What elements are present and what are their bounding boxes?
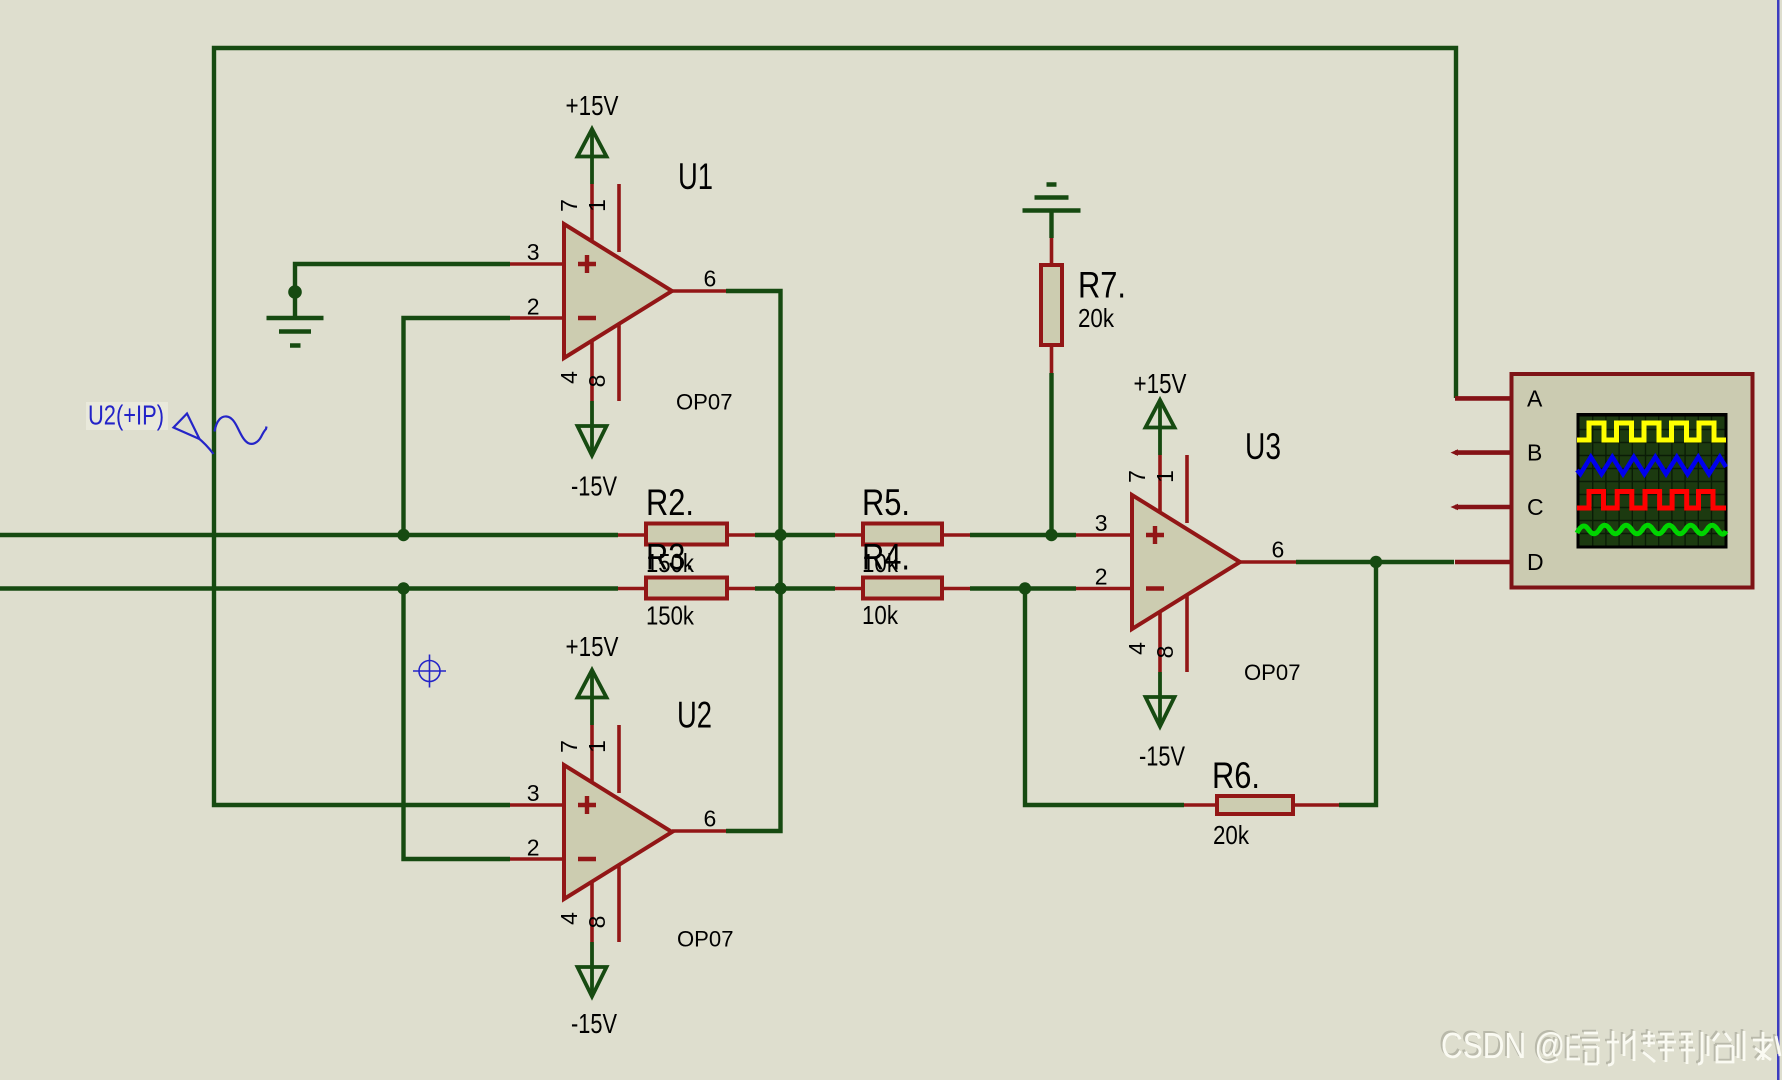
resistor R4 leads [835,587,970,591]
watermark shadow [1439,1023,1563,1064]
ground (top, at R7) [1023,185,1081,211]
resistor R5 leads [835,533,970,537]
svg-text:4: 4 [556,371,582,384]
svg-text:3: 3 [527,780,540,806]
svg-text:2: 2 [527,294,540,320]
oscilloscope pin A [1455,396,1510,401]
svg-text:20k: 20k [1213,820,1250,850]
svg-text:20k: 20k [1078,303,1115,333]
svg-text:U3: U3 [1245,426,1281,467]
svg-text:+15V: +15V [566,90,619,121]
svg-text:CSDN @: CSDN @ [1441,1025,1565,1066]
junction node B [397,582,409,594]
trace D green sine [1577,525,1726,534]
svg-text:1: 1 [1152,470,1178,483]
resistor R7 [1041,265,1062,345]
svg-text:U1: U1 [678,156,713,197]
svg-text:OP07: OP07 [676,390,733,415]
junction node D [774,582,786,594]
resistor R2 [646,524,727,545]
op-amp U2 [564,765,672,899]
resistor R7 leads [1050,238,1054,373]
wire R2 to R5 [755,533,835,537]
junction node E [1045,529,1057,541]
trace C red square [1577,492,1726,509]
wire node to R6 left [1025,589,1184,806]
svg-text:R2.: R2. [646,482,694,523]
svg-text:R5.: R5. [862,482,910,523]
junction node G [1370,556,1382,568]
svg-text:+15V: +15V [1134,368,1187,399]
wire R6 right to U3 out [1339,562,1376,805]
op-amp U1 pins [510,184,726,401]
label bg U2(+IP) [86,402,168,430]
svg-text:U2(+IP): U2(+IP) [88,400,164,431]
node dot ground U1 [288,285,302,299]
generator probe U2(+IP) [174,414,267,455]
svg-text:7: 7 [556,740,582,753]
resistor R3 [646,578,727,599]
op-amp U3 pins [1076,455,1296,672]
oscilloscope pin C [1455,505,1510,510]
svg-text:4: 4 [556,912,582,925]
trace B blue triangle [1577,457,1726,474]
svg-text:6: 6 [1272,537,1285,563]
svg-text:-15V: -15V [1139,741,1185,772]
svg-text:8: 8 [584,375,610,388]
svg-text:10k: 10k [862,600,899,630]
svg-text:1: 1 [584,199,610,212]
resistor R4 [863,578,942,599]
power +15V arrow U3 [1146,400,1175,455]
watermark CJK strokes [1566,1029,1778,1063]
svg-text:8: 8 [1152,646,1178,659]
power +15V arrow U1 [578,129,607,184]
svg-text:A: A [1527,386,1543,412]
op-amp U3 [1132,495,1240,629]
svg-text:C: C [1527,494,1544,520]
svg-text:-15V: -15V [571,471,617,502]
svg-text:-15V: -15V [571,1008,617,1039]
oscilloscope body [1512,374,1753,588]
resistor R3 leads [618,587,755,591]
svg-text:8: 8 [584,916,610,929]
op-amp U2 pins [510,725,726,942]
oscilloscope screen [1577,413,1728,549]
power +15V arrow U2 [578,670,607,725]
wire bus top left [0,533,618,537]
svg-text:D: D [1527,549,1544,575]
oscilloscope pin B [1455,450,1510,455]
window edge line [1777,0,1780,1080]
svg-text:150k: 150k [646,601,695,631]
wire ground to R7 [1049,212,1053,238]
resistor R6 [1217,796,1293,814]
wire U3 out to scope D [1296,560,1454,564]
svg-text:OP07: OP07 [1244,660,1301,685]
wire R4 to U3 pin2 [970,586,1076,590]
trace A yellow square [1577,423,1726,440]
resistor R6 leads [1184,803,1339,807]
svg-text:6: 6 [704,806,717,832]
junction node F [1019,582,1031,594]
junction node C [774,529,786,541]
wire bus bottom left [0,586,618,590]
wire R7 to node [1049,373,1053,535]
wire top loop: left vertical, top horizontal, down to scope A [214,48,1456,805]
wire node to U2 pin2 [404,589,511,860]
svg-text:2: 2 [527,835,540,861]
wire U1 pin3 to ground [295,264,510,316]
ground (U1 pin3) [267,318,324,346]
svg-text:4: 4 [1124,642,1150,655]
crosshair marker [413,655,446,688]
watermark text [1441,1025,1565,1066]
svg-text:+15V: +15V [566,631,619,662]
svg-text:6: 6 [704,266,717,292]
wire U1 out to U2 out vertical [726,291,781,831]
wire R5 to U3 pin3 [970,533,1076,537]
svg-text:OP07: OP07 [677,927,734,952]
svg-text:3: 3 [527,239,540,265]
wire U1 pin2 loop down to node [404,318,511,535]
svg-text:7: 7 [556,199,582,212]
wire R3 to R4 [755,586,835,590]
svg-text:R3.: R3. [646,537,694,578]
svg-text:B: B [1527,440,1542,466]
op-amp U1 [564,224,672,358]
power -15V arrow U3 [1146,672,1175,727]
resistor R5 [863,524,942,545]
svg-text:R6.: R6. [1212,755,1260,796]
svg-text:R7.: R7. [1078,265,1126,306]
oscilloscope pin D [1455,560,1510,565]
svg-text:1: 1 [584,740,610,753]
svg-text:U2: U2 [677,695,712,736]
svg-text:3: 3 [1095,510,1108,536]
svg-text:7: 7 [1124,470,1150,483]
power -15V arrow U1 [578,401,607,456]
svg-text:R4.: R4. [862,537,910,578]
junction node A [397,529,409,541]
power -15V arrow U2 [578,942,607,997]
resistor R2 leads [618,533,755,537]
svg-text:2: 2 [1095,564,1108,590]
